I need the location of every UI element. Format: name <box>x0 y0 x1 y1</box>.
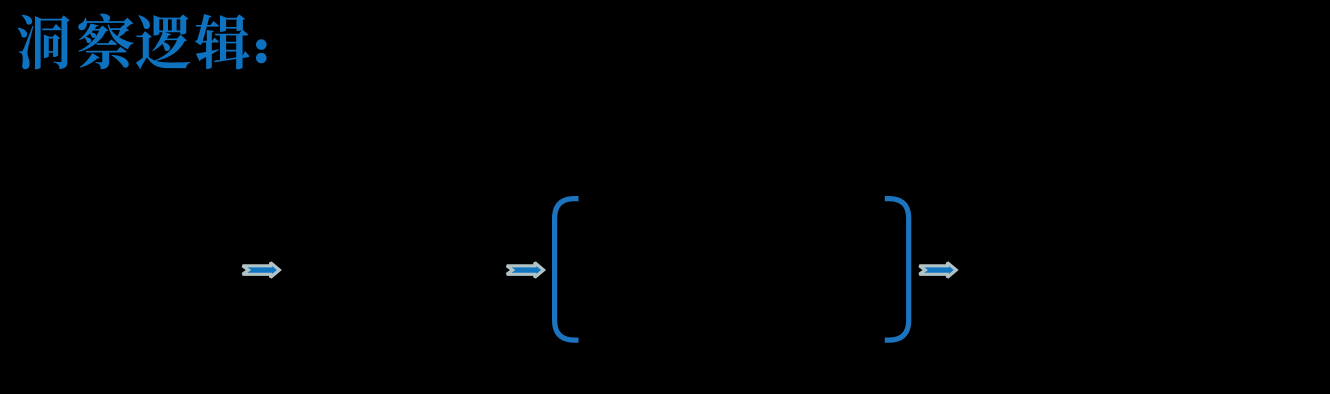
arrow 2 <box>507 263 544 278</box>
right bracket <box>885 199 909 341</box>
title glyph 洞 <box>18 15 70 70</box>
title glyph 辑 <box>195 14 249 69</box>
title colon upper dot <box>256 39 267 50</box>
title glyph 察 <box>78 14 133 70</box>
left bracket <box>555 199 579 341</box>
title glyph 逻 <box>136 14 190 69</box>
arrow 1 <box>243 263 280 278</box>
arrow 3 <box>919 263 956 278</box>
title colon lower dot <box>256 53 267 64</box>
